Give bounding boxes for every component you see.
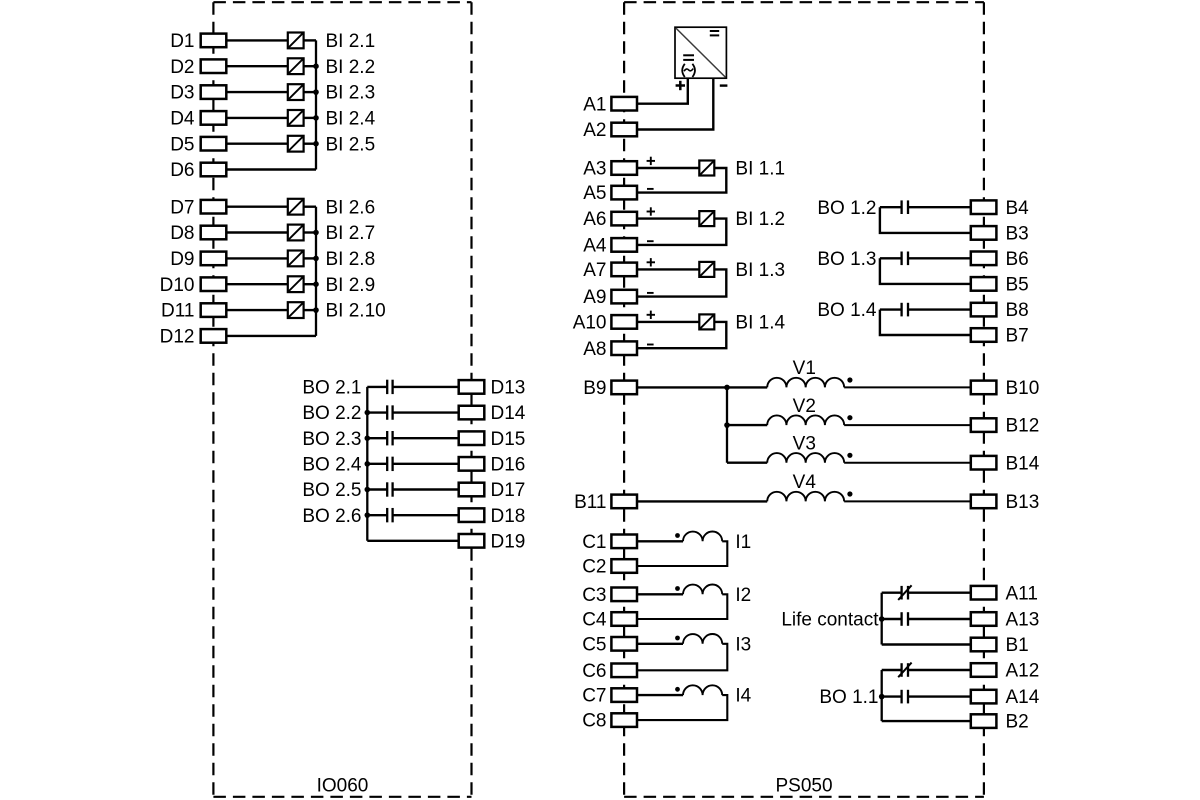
NC relay contact of Life contact — [898, 585, 911, 600]
polarity dot of V2 — [847, 415, 852, 420]
relay contact BO 2.3 — [387, 431, 392, 445]
wire D12 return to bus — [226, 335, 316, 337]
wire BI 2.4 to bus — [303, 117, 316, 119]
wire D7 to BI 2.6 — [226, 205, 287, 207]
terminal A2 — [583, 120, 637, 141]
svg-text:Life contact: Life contact — [781, 610, 879, 631]
wire NC contact to A11 — [908, 592, 971, 594]
wire BI 2.2 to bus — [303, 65, 316, 67]
wire contact BO 1.2 to B4 — [908, 206, 971, 208]
minus sign at A8 — [647, 344, 654, 346]
svg-text:BO 2.5: BO 2.5 — [302, 480, 361, 501]
terminal C3 — [582, 585, 637, 606]
power supply unit U1 (DC/DC converter) — [675, 27, 726, 78]
junction BI 2.3 on bus — [313, 89, 319, 95]
relay contact BO 1.2 — [902, 200, 908, 214]
terminal C2 — [582, 557, 637, 578]
wire BI 2.5 to bus — [303, 142, 316, 144]
terminal B9 — [583, 378, 637, 399]
wire to NC contact of BO 1.1 — [882, 669, 902, 671]
wire coil V3 to terminal — [844, 462, 971, 464]
junction BI 2.5 on bus — [313, 141, 319, 147]
terminal D9 — [170, 249, 226, 270]
wire C1 to coil I1 — [637, 540, 683, 542]
wire C7 to coil I4 — [637, 694, 683, 696]
opto-coupler BI 2.2 — [288, 58, 304, 74]
plus polarity sign of power supply — [676, 81, 685, 90]
NO relay contact of Life contact — [902, 612, 908, 626]
wire bus to D19 — [367, 540, 458, 542]
svg-text:BI 2.3: BI 2.3 — [326, 83, 376, 104]
svg-text:BO 1.3: BO 1.3 — [817, 249, 876, 270]
current input coil I3 — [683, 634, 722, 644]
wire A3 to BI 1.1 — [637, 167, 699, 169]
bus of BO 1.1 group — [881, 670, 883, 721]
wire BI 2.7 to bus — [303, 231, 316, 233]
svg-text:B13: B13 — [1006, 492, 1040, 513]
svg-text:BI 2.2: BI 2.2 — [326, 57, 376, 78]
svg-text:C8: C8 — [582, 711, 606, 732]
wire D11 to BI 2.10 — [226, 309, 287, 311]
svg-text:BI 2.8: BI 2.8 — [326, 249, 376, 270]
polarity dot of I1 — [675, 533, 680, 538]
svg-text:V1: V1 — [793, 358, 816, 379]
polarity dot of I4 — [675, 687, 680, 692]
polarity dot of V4 — [847, 491, 852, 496]
plus sign at A10 — [647, 311, 655, 319]
svg-text:B3: B3 — [1006, 224, 1029, 245]
wire BI 1.1 return to A5 — [637, 168, 726, 193]
svg-text:D1: D1 — [170, 31, 194, 52]
wire D3 to BI 2.3 — [226, 91, 287, 93]
junction BO 2.6 on bus — [365, 512, 371, 518]
terminal D15 — [459, 429, 526, 450]
junction BO 2.3 on bus — [365, 435, 371, 441]
svg-text:BI 1.2: BI 1.2 — [735, 209, 785, 230]
svg-text:D5: D5 — [170, 134, 194, 155]
wire coil I2 return to C4 — [637, 594, 727, 619]
terminal C1 — [582, 532, 637, 553]
opto-coupler BI 1.4 — [699, 314, 714, 329]
svg-text:D13: D13 — [491, 378, 526, 399]
junction BI 2.2 on bus — [313, 63, 319, 69]
junction BI 2.4 on bus — [313, 115, 319, 121]
svg-text:D12: D12 — [160, 327, 195, 348]
svg-text:A8: A8 — [583, 339, 606, 360]
opto-coupler BI 2.5 — [288, 136, 304, 152]
terminal C7 — [582, 686, 637, 707]
terminal B14 — [971, 453, 1040, 474]
plus sign at A3 — [647, 157, 655, 165]
svg-text:BO 1.1: BO 1.1 — [819, 687, 878, 708]
wire to NC contact of Life contact — [882, 592, 902, 594]
svg-text:A2: A2 — [583, 120, 606, 141]
svg-text:D4: D4 — [170, 109, 195, 130]
polarity dot of I3 — [675, 636, 680, 641]
svg-text:BI 1.1: BI 1.1 — [735, 159, 785, 180]
svg-text:B5: B5 — [1006, 275, 1029, 296]
wire power supply + to A1 — [637, 78, 688, 104]
wire contact BO 2.4 to D16 — [393, 463, 459, 465]
svg-text:BI 1.3: BI 1.3 — [735, 260, 785, 281]
wire D8 to BI 2.7 — [226, 231, 287, 233]
wire D6 return to bus — [226, 168, 316, 170]
svg-text:A13: A13 — [1006, 610, 1040, 631]
terminal B3 — [971, 224, 1029, 245]
svg-text:BI 1.4: BI 1.4 — [735, 313, 785, 334]
terminal D7 — [170, 197, 226, 218]
wire bus to coil V3 — [727, 462, 767, 464]
terminal D8 — [170, 223, 226, 244]
bus common of BI 2.1-BI 2.5 — [315, 40, 317, 169]
svg-text:BI 2.7: BI 2.7 — [326, 223, 376, 244]
terminal C4 — [582, 610, 637, 631]
terminal D18 — [459, 506, 526, 527]
terminal D11 — [161, 301, 226, 322]
wire NO contact to A14 — [908, 695, 971, 697]
junction BO 2.4 on bus — [365, 461, 371, 467]
svg-text:D18: D18 — [491, 506, 526, 527]
junction Life contact feed — [879, 616, 885, 622]
wire contact BO 1.3 to B6 — [908, 257, 971, 259]
opto-coupler BI 2.3 — [288, 84, 304, 100]
module PS050 dashed enclosure — [624, 2, 984, 797]
svg-text:C7: C7 — [582, 686, 606, 707]
svg-text:I4: I4 — [735, 686, 751, 707]
terminal D13 — [459, 378, 526, 399]
wire BO 1.3 to contact — [880, 257, 902, 259]
svg-text:BO 2.4: BO 2.4 — [302, 454, 362, 475]
relay contact BO 2.1 — [387, 380, 392, 394]
voltage input coil V2 — [767, 415, 844, 425]
terminal D3 — [170, 83, 226, 104]
wire BI 2.1 to bus — [303, 39, 316, 41]
wire power supply - to A2 — [637, 78, 713, 129]
junction BI 2.9 on bus — [313, 281, 319, 287]
terminal C6 — [582, 661, 637, 682]
wire coil I3 return to C6 — [637, 644, 727, 671]
relay contact BO 2.6 — [387, 508, 392, 522]
voltage input coil V1 — [767, 378, 844, 388]
current input coil I2 — [683, 584, 722, 594]
wire BO 1.4 return to B7 — [880, 310, 971, 335]
svg-text:I3: I3 — [735, 634, 751, 655]
terminal A9 — [583, 287, 637, 308]
bus of Life contact group — [881, 593, 883, 645]
svg-text:BO 2.1: BO 2.1 — [302, 378, 361, 399]
wire contact BO 2.1 to D13 — [393, 386, 459, 388]
wire NO contact to A13 — [908, 618, 971, 620]
svg-text:D15: D15 — [491, 429, 526, 450]
wire contact BO 2.5 to D17 — [393, 488, 459, 490]
opto-coupler BI 2.9 — [288, 276, 304, 292]
current input coil I4 — [683, 685, 722, 695]
svg-text:BO 2.6: BO 2.6 — [302, 506, 361, 527]
minus sign at A5 — [647, 188, 654, 190]
svg-text:V4: V4 — [793, 472, 817, 493]
wire D1 to BI 2.1 — [226, 39, 287, 41]
terminal A13 — [971, 610, 1040, 631]
terminal D12 — [160, 327, 227, 348]
terminal C8 — [582, 711, 637, 732]
opto-coupler BI 2.10 — [288, 302, 304, 318]
wire common return to B2 — [882, 720, 971, 722]
terminal D2 — [170, 57, 226, 78]
svg-text:I2: I2 — [735, 585, 751, 606]
junction V2 tap — [724, 422, 730, 428]
terminal A11 — [971, 583, 1038, 604]
current input coil I1 — [683, 532, 722, 542]
wire contact BO 1.4 to B8 — [908, 308, 971, 310]
wire BI 1.2 return to A4 — [637, 219, 726, 245]
terminal D1 — [170, 31, 226, 52]
wire bus to contact BO 2.5 — [367, 488, 386, 490]
svg-text:D19: D19 — [491, 531, 526, 552]
svg-text:A14: A14 — [1006, 687, 1040, 708]
junction BO 1.1 feed — [879, 694, 885, 700]
svg-text:BI 2.1: BI 2.1 — [326, 31, 376, 52]
svg-text:B10: B10 — [1006, 378, 1040, 399]
svg-text:BI 2.4: BI 2.4 — [326, 109, 376, 130]
terminal A5 — [583, 183, 637, 204]
svg-text:D17: D17 — [491, 480, 526, 501]
terminal A1 — [583, 94, 637, 115]
svg-text:D7: D7 — [170, 197, 194, 218]
terminal B13 — [971, 492, 1040, 513]
wire to NO contact of Life contact — [882, 618, 902, 620]
opto-coupler BI 2.4 — [288, 110, 304, 126]
wire coil V2 to terminal — [844, 424, 971, 426]
svg-text:C3: C3 — [582, 585, 606, 606]
svg-text:A5: A5 — [583, 183, 606, 204]
terminal A4 — [583, 236, 637, 257]
svg-text:A7: A7 — [583, 260, 606, 281]
svg-text:D6: D6 — [170, 160, 194, 181]
terminal D4 — [170, 109, 226, 130]
relay contact BO 2.2 — [387, 405, 392, 419]
opto-coupler BI 1.1 — [699, 161, 714, 176]
wire bus to contact BO 2.6 — [367, 514, 386, 516]
terminal B11 — [574, 492, 637, 513]
wire bus to contact BO 2.3 — [367, 437, 386, 439]
wire B9 to junction node — [637, 386, 727, 388]
svg-text:C2: C2 — [582, 557, 606, 578]
svg-text:B12: B12 — [1006, 416, 1040, 437]
bus common of BO 2.1-2.6 — [366, 387, 368, 541]
voltage input coil V4 — [767, 492, 844, 502]
bus common of BI 2.6-BI 2.10 — [315, 207, 317, 336]
svg-text:B11: B11 — [574, 492, 606, 513]
junction BI 2.8 on bus — [313, 256, 319, 262]
svg-text:B9: B9 — [583, 378, 606, 399]
opto-coupler BI 1.3 — [699, 262, 714, 277]
svg-text:A4: A4 — [583, 236, 607, 257]
terminal A10 — [573, 313, 637, 334]
wire junction to coil V1 — [727, 386, 767, 388]
svg-text:A9: A9 — [583, 287, 606, 308]
terminal B2 — [971, 712, 1029, 733]
junction V1 tap — [724, 385, 730, 391]
terminal D19 — [459, 531, 526, 552]
wire B11 to coil V4 — [637, 500, 767, 502]
relay contact BO 1.4 — [902, 303, 908, 317]
voltage input coil V3 — [767, 453, 844, 463]
svg-text:B4: B4 — [1006, 198, 1030, 219]
terminal A8 — [583, 339, 637, 360]
terminal D5 — [170, 134, 226, 155]
wire BI 2.10 to bus — [303, 309, 316, 311]
svg-text:A12: A12 — [1006, 661, 1040, 682]
wire contact BO 2.6 to D18 — [393, 514, 459, 516]
terminal B10 — [971, 378, 1040, 399]
polarity dot of V1 — [847, 377, 852, 382]
svg-text:V3: V3 — [793, 434, 816, 455]
wire A10 to BI 1.4 — [637, 321, 699, 323]
wire BI 1.4 return to A8 — [637, 322, 726, 348]
wire bus to contact BO 2.4 — [367, 463, 386, 465]
wire bus to coil V2 — [727, 424, 767, 426]
svg-text:V2: V2 — [793, 396, 816, 417]
opto-coupler BI 1.2 — [699, 211, 714, 226]
junction BO 2.5 on bus — [365, 487, 371, 493]
relay contact BO 1.3 — [902, 252, 908, 266]
svg-text:C5: C5 — [582, 634, 606, 655]
wire BO 1.3 return to B5 — [880, 258, 971, 284]
wire D4 to BI 2.4 — [226, 117, 287, 119]
terminal A6 — [583, 209, 637, 230]
svg-text:B7: B7 — [1006, 326, 1029, 347]
svg-text:BI 2.5: BI 2.5 — [326, 134, 376, 155]
terminal B6 — [971, 249, 1029, 270]
minus polarity sign of power supply — [720, 84, 728, 86]
svg-text:B2: B2 — [1006, 712, 1029, 733]
svg-text:D8: D8 — [170, 223, 194, 244]
terminal D17 — [459, 480, 526, 501]
wire coil I1 return to C2 — [637, 541, 727, 566]
svg-text:BO 1.2: BO 1.2 — [817, 198, 876, 219]
svg-text:A6: A6 — [583, 209, 606, 230]
wire D5 to BI 2.5 — [226, 142, 287, 144]
terminal D6 — [170, 160, 226, 181]
wire D2 to BI 2.2 — [226, 65, 287, 67]
svg-text:B14: B14 — [1006, 453, 1040, 474]
wire D10 to BI 2.9 — [226, 283, 287, 285]
NC relay contact of BO 1.1 — [898, 663, 911, 678]
terminal D14 — [459, 403, 526, 424]
svg-text:D9: D9 — [170, 249, 194, 270]
svg-text:BI 2.9: BI 2.9 — [326, 275, 376, 296]
wire BI 2.8 to bus — [303, 257, 316, 259]
svg-text:BO 2.2: BO 2.2 — [302, 403, 361, 424]
terminal C5 — [582, 634, 637, 655]
junction BO 2.2 on bus — [365, 410, 371, 416]
wire bus to contact BO 2.1 — [367, 386, 386, 388]
svg-text:D16: D16 — [491, 454, 526, 475]
wire to NO contact of BO 1.1 — [882, 695, 902, 697]
plus sign at A6 — [647, 207, 655, 215]
svg-text:BO 2.3: BO 2.3 — [302, 429, 361, 450]
svg-text:BO 1.4: BO 1.4 — [817, 300, 877, 321]
wire BI 2.9 to bus — [303, 283, 316, 285]
wire A6 to BI 1.2 — [637, 217, 699, 219]
relay contact BO 2.4 — [387, 457, 392, 471]
junction BI 2.10 on bus — [313, 307, 319, 313]
svg-text:A10: A10 — [573, 313, 607, 334]
wire A7 to BI 1.3 — [637, 268, 699, 270]
svg-text:B8: B8 — [1006, 300, 1029, 321]
svg-text:D2: D2 — [170, 57, 194, 78]
wire bus to contact BO 2.2 — [367, 411, 386, 413]
svg-text:D3: D3 — [170, 83, 194, 104]
wire D9 to BI 2.8 — [226, 257, 287, 259]
wire BO 1.2 to contact — [880, 206, 902, 208]
terminal D16 — [459, 454, 526, 475]
svg-text:BI 2.6: BI 2.6 — [326, 197, 376, 218]
svg-text:D11: D11 — [161, 301, 194, 322]
terminal D10 — [160, 275, 227, 296]
opto-coupler BI 2.8 — [288, 251, 304, 267]
svg-text:D14: D14 — [491, 403, 526, 424]
wire BO 1.4 to contact — [880, 308, 902, 310]
wire BO 1.2 return to B3 — [880, 207, 971, 233]
bus B9 common to V1 V2 V3 — [726, 387, 728, 462]
terminal A14 — [971, 687, 1040, 708]
svg-text:D10: D10 — [160, 275, 195, 296]
terminal A7 — [583, 260, 637, 281]
wire BI 1.3 return to A9 — [637, 269, 726, 296]
svg-text:C1: C1 — [582, 532, 606, 553]
wire coil V4 to terminal — [844, 500, 971, 502]
wire coil V1 to terminal — [844, 386, 971, 388]
wire common return to B1 — [882, 643, 971, 645]
wire C3 to coil I2 — [637, 593, 683, 595]
NO relay contact of BO 1.1 — [902, 690, 908, 704]
polarity dot of I2 — [675, 586, 680, 591]
opto-coupler BI 2.6 — [288, 199, 304, 215]
module IO060 dashed enclosure — [213, 2, 471, 797]
terminal B5 — [971, 275, 1029, 296]
svg-text:BI 2.10: BI 2.10 — [326, 301, 386, 322]
svg-text:I1: I1 — [735, 532, 751, 553]
junction BI 2.7 on bus — [313, 230, 319, 236]
wire C5 to coil I3 — [637, 643, 683, 645]
svg-text:B6: B6 — [1006, 249, 1029, 270]
svg-text:C4: C4 — [582, 610, 607, 631]
terminal B1 — [971, 635, 1029, 656]
svg-text:A3: A3 — [583, 159, 606, 180]
svg-text:PS050: PS050 — [775, 776, 832, 797]
svg-text:A1: A1 — [583, 94, 606, 115]
opto-coupler BI 2.7 — [288, 225, 304, 241]
terminal B8 — [971, 300, 1029, 321]
terminal A12 — [971, 661, 1040, 682]
terminal A3 — [583, 159, 637, 180]
minus sign at A4 — [647, 240, 654, 242]
terminal B4 — [971, 198, 1029, 219]
svg-text:C6: C6 — [582, 661, 606, 682]
svg-text:IO060: IO060 — [317, 776, 369, 797]
wire contact BO 2.3 to D15 — [393, 437, 459, 439]
wire coil I4 return to C8 — [637, 695, 727, 720]
wire contact BO 2.2 to D14 — [393, 411, 459, 413]
wire BI 2.6 to bus — [303, 205, 316, 207]
opto-coupler BI 2.1 — [288, 33, 304, 49]
wire BI 2.3 to bus — [303, 91, 316, 93]
minus sign at A9 — [647, 292, 654, 294]
svg-text:B1: B1 — [1006, 635, 1029, 656]
terminal B12 — [971, 416, 1040, 437]
polarity dot of V3 — [847, 453, 852, 458]
